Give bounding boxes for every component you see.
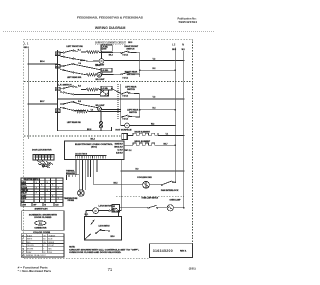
svg-text:LIGHT: LIGHT xyxy=(22,198,27,200)
connector box LR ind light xyxy=(101,68,112,74)
wire bottom s2 xyxy=(58,127,112,131)
svg-text:IND. LIGHT: IND. LIGHT xyxy=(96,105,106,107)
disclaimer box xyxy=(22,211,64,231)
EOC bottom comb connector xyxy=(75,153,107,159)
wire eoc drop 3 xyxy=(78,177,80,190)
section divider 2 xyxy=(24,81,192,83)
node L1 label xyxy=(24,42,29,49)
svg-text:M: M xyxy=(95,210,97,213)
svg-text:OFF: OFF xyxy=(33,204,36,206)
switch s3 contact 2 xyxy=(60,107,86,111)
svg-text:LATCH SWITCH: LATCH SWITCH xyxy=(99,225,111,228)
thermal breaker xyxy=(66,169,79,180)
svg-text:(3/01): (3/01) xyxy=(189,267,196,271)
connector box LF ind light xyxy=(101,45,112,51)
node N label xyxy=(182,42,185,51)
svg-text:L.F. SWITCH: L.F. SWITCH xyxy=(58,84,72,86)
door latch assembly sketch xyxy=(33,155,54,168)
wire lr3 up to row4 xyxy=(139,110,141,117)
svg-text:P-2 H-2: P-2 H-2 xyxy=(123,77,129,79)
svg-text:BROIL: BROIL xyxy=(22,185,27,187)
header dotted rule xyxy=(3,31,215,33)
connector box warmer ind xyxy=(101,86,112,90)
connector P2 on bus xyxy=(55,65,60,69)
EOC pin stub xyxy=(124,150,131,152)
wire L1 bus xyxy=(27,49,29,140)
lamp oven lamp xyxy=(167,205,184,211)
lamp LF indicator light xyxy=(99,59,104,64)
svg-text:R-6: R-6 xyxy=(78,85,81,87)
motor latch xyxy=(86,208,99,214)
switch RR label xyxy=(125,71,138,76)
svg-text:P-2: P-2 xyxy=(56,66,59,68)
svg-text:BK-7: BK-7 xyxy=(164,143,168,145)
resistor element s2 xyxy=(81,88,99,91)
svg-text:DOOR LATCH MOTOR: DOOR LATCH MOTOR xyxy=(32,149,52,152)
svg-text:BK-4: BK-4 xyxy=(109,54,113,57)
wire lamp row left xyxy=(120,207,148,209)
svg-text:CONNECTOR: CONNECTOR xyxy=(34,228,47,230)
resistor broil element xyxy=(124,143,176,146)
wire eoc drop 4 xyxy=(85,160,87,190)
svg-text:P-1: P-1 xyxy=(56,54,59,56)
wire latch drop xyxy=(85,211,87,217)
switch LR contact 2 xyxy=(60,69,86,74)
wire eoc right drop xyxy=(120,160,122,208)
lamp LR indicator light xyxy=(97,73,102,78)
switch chart table xyxy=(21,178,63,206)
wire eoc drop 1 xyxy=(75,160,77,176)
switch LRR label xyxy=(125,85,137,90)
header model numbers xyxy=(77,16,143,20)
svg-text:DLB RLY: DLB RLY xyxy=(116,153,124,155)
svg-text:# = Functional Parts: # = Functional Parts xyxy=(18,266,49,269)
svg-text:BK-5: BK-5 xyxy=(114,183,118,185)
switch LF contact 1 xyxy=(60,50,78,53)
svg-text:Y-6: Y-6 xyxy=(91,110,94,112)
lamp hot surface xyxy=(116,123,133,131)
svg-text:NOTE:: NOTE: xyxy=(69,247,75,249)
linkage dashed vertical xyxy=(117,84,119,120)
svg-text:R-1: R-1 xyxy=(78,49,81,51)
wire R-9 to N xyxy=(121,168,185,171)
svg-text:R-2: R-2 xyxy=(153,68,156,70)
lamp hot light xyxy=(97,107,101,111)
svg-text:LOW: LOW xyxy=(22,204,26,206)
section title SURFACE ELEMENTS CIRCUIT xyxy=(95,41,132,44)
svg-text:FEB30S6AB, FEB30S7AB & FEB30S6: FEB30S6AB, FEB30S7AB & FEB30S6AS xyxy=(77,16,143,20)
svg-text:LIGHT: LIGHT xyxy=(102,49,107,51)
svg-text:R-8: R-8 xyxy=(113,211,116,213)
svg-text:BK-6: BK-6 xyxy=(80,60,84,62)
connector block hatched xyxy=(100,90,108,96)
switch RF xyxy=(121,51,140,57)
wire LRR drop xyxy=(139,94,141,110)
svg-text:PROBE: PROBE xyxy=(68,200,75,202)
svg-text:N: N xyxy=(182,42,184,46)
svg-text:BROIL RLY: BROIL RLY xyxy=(114,147,123,149)
svg-text:LEFT REAR SW.: LEFT REAR SW. xyxy=(67,121,81,124)
svg-text:P-1 H-1: P-1 H-1 xyxy=(123,55,129,57)
svg-text:HOT SURFACE: HOT SURFACE xyxy=(116,128,133,131)
wire eoc drop 5 xyxy=(87,160,89,178)
resistor LR element xyxy=(86,73,97,76)
color code table xyxy=(21,232,64,257)
note text xyxy=(69,247,140,255)
resistor bake element xyxy=(128,133,185,136)
wire eoc drop 2 xyxy=(78,160,80,176)
svg-text:Y-3: Y-3 xyxy=(153,97,156,99)
svg-text:P-1: P-1 xyxy=(39,223,42,225)
svg-text:SWITCH: SWITCH xyxy=(129,112,137,114)
svg-text:L2: L2 xyxy=(172,42,176,46)
svg-text:BLUE: BLUE xyxy=(48,239,52,241)
arrow in inset xyxy=(91,220,95,225)
svg-text:316345200: 316345200 xyxy=(153,249,173,253)
switch RR xyxy=(121,72,140,79)
motor cooling fan xyxy=(137,176,152,188)
connector P4 on bus xyxy=(55,109,60,113)
svg-text:W-1: W-1 xyxy=(182,49,185,51)
switch s2 contact 2 xyxy=(60,92,100,95)
svg-text:WHITE: WHITE xyxy=(27,239,32,241)
part number box xyxy=(150,244,193,258)
svg-text:BK-8: BK-8 xyxy=(87,129,91,131)
wire N bus xyxy=(183,51,185,208)
wire hot surface to L2 xyxy=(129,123,176,126)
divider above oven lamp xyxy=(116,195,184,197)
svg-text:R-5: R-5 xyxy=(78,101,81,103)
connector bake plug xyxy=(122,134,128,140)
inset latch switch box xyxy=(84,217,121,240)
svg-text:5995421594: 5995421594 xyxy=(179,20,198,24)
wire row1 to N xyxy=(104,58,185,61)
switch RF label xyxy=(124,46,138,50)
resistor LF element xyxy=(81,51,99,54)
svg-text:OVEN DOOR CLOSED AND DOOR UNLO: OVEN DOOR CLOSED AND DOOR UNLOCKED. xyxy=(69,251,122,254)
svg-text:IND. LIGHT: IND. LIGHT xyxy=(96,79,106,81)
svg-text:BK-7: BK-7 xyxy=(40,101,44,103)
wire mid vertical xyxy=(120,84,122,126)
svg-text:R-9: R-9 xyxy=(136,168,139,170)
svg-text:Y-4: Y-4 xyxy=(78,62,81,65)
svg-text:SWITCH: SWITCH xyxy=(126,49,134,51)
svg-text:P-3 H-3: P-3 H-3 xyxy=(123,95,129,97)
wire latch switch drop xyxy=(118,211,120,217)
plug connector pair xyxy=(100,112,103,131)
svg-text:L1 RLY: L1 RLY xyxy=(117,150,123,152)
switch latch xyxy=(95,229,110,234)
svg-text:T: T xyxy=(43,249,44,251)
svg-text:BK-2: BK-2 xyxy=(91,139,95,141)
svg-text:(EOC): (EOC) xyxy=(91,147,97,149)
svg-text:OVEN LAMP SWITCH: OVEN LAMP SWITCH xyxy=(142,197,159,200)
wire row3 to N xyxy=(57,97,185,100)
svg-text:LEFT FRONT SW.: LEFT FRONT SW. xyxy=(66,46,83,48)
svg-text:ELECTRONIC OVEN CONTROL: ELECTRONIC OVEN CONTROL xyxy=(75,144,114,146)
resistor element s3 xyxy=(74,110,121,113)
page title WIRING DIAGRAM xyxy=(95,26,126,30)
svg-text:OFF: OFF xyxy=(22,201,25,203)
wire eoc drop 6 fan feed xyxy=(94,160,143,185)
wire BK-7 from L1 to switch bus xyxy=(28,101,59,105)
connector P1 on bus xyxy=(55,52,60,56)
wire row4 to L2 xyxy=(139,107,176,111)
svg-text:CIRCUIT SHOWN WITH ALL CONTROL: CIRCUIT SHOWN WITH ALL CONTROLS SET TO "… xyxy=(69,248,140,251)
wire BK-4 from L1 to switch bus xyxy=(28,60,59,65)
svg-text:BROWN: BROWN xyxy=(27,249,34,251)
svg-text:VIOLET: VIOLET xyxy=(48,245,54,247)
svg-text:SWITCH: SWITCH xyxy=(127,89,135,91)
svg-text:L.F. IND.: L.F. IND. xyxy=(102,47,109,49)
wire row2 to L2 xyxy=(139,68,176,71)
svg-text:BK-9: BK-9 xyxy=(111,236,115,238)
svg-text:FAN INTERLOCK: FAN INTERLOCK xyxy=(161,189,179,192)
svg-text:K-2: K-2 xyxy=(129,150,132,152)
wire conn to LR switch xyxy=(99,89,101,91)
switch latch row xyxy=(99,208,122,212)
connector stack box xyxy=(112,205,120,213)
wire element to RF switch xyxy=(99,51,121,53)
wire hot light row xyxy=(102,109,121,111)
svg-text:REV A: REV A xyxy=(180,250,187,253)
temperature probe jack xyxy=(64,190,84,203)
header publication no xyxy=(178,17,198,24)
node L2 label xyxy=(172,42,176,50)
svg-text:Y-1: Y-1 xyxy=(166,134,169,136)
svg-text:DOOR CLOSED: DOOR CLOSED xyxy=(34,217,52,219)
switch LF contact 2 xyxy=(60,56,99,61)
wire switch feed bus xyxy=(57,50,59,131)
svg-text:LEFT REAR SW.: LEFT REAR SW. xyxy=(67,76,82,79)
svg-text:* = Non-Illustrated Parts: * = Non-Illustrated Parts xyxy=(18,270,52,273)
svg-text:TIME BK: TIME BK xyxy=(22,190,29,192)
footer functional parts xyxy=(18,266,52,273)
connector P3 on bus xyxy=(55,87,60,91)
svg-text:71: 71 xyxy=(108,267,113,272)
wire L2 bus xyxy=(174,48,176,183)
svg-text:YELLOW: YELLOW xyxy=(27,245,34,247)
svg-text:SELECTOR SWITCH: SELECTOR SWITCH xyxy=(24,179,38,181)
switch s3 contact 1 xyxy=(60,101,98,107)
svg-text:WIRING DIAGRAM: WIRING DIAGRAM xyxy=(95,26,126,30)
svg-text:L 1: L 1 xyxy=(24,42,29,46)
wire eoc drop 5c xyxy=(96,160,98,173)
svg-text:R-4: R-4 xyxy=(153,107,156,110)
EOC box xyxy=(65,141,125,160)
switch LRR xyxy=(121,92,140,98)
switch oven lamp xyxy=(148,205,167,208)
svg-text:GREEN: GREEN xyxy=(48,242,55,244)
switch LR contact 1 xyxy=(60,63,101,69)
wire eoc drop 5b xyxy=(90,160,92,178)
svg-text:LATCH MOTOR: LATCH MOTOR xyxy=(99,204,113,207)
wire box drop to lamp xyxy=(101,51,103,58)
svg-text:COOLING FAN: COOLING FAN xyxy=(137,176,152,179)
svg-text:OVEN LAMP: OVEN LAMP xyxy=(170,198,182,201)
svg-text:P-4: P-4 xyxy=(56,110,59,113)
wire inset diagonal xyxy=(84,234,90,240)
section divider 3 xyxy=(24,135,121,137)
main dashed border xyxy=(24,40,193,259)
switch s2 contact 1 xyxy=(60,86,78,89)
switch LR3 xyxy=(121,115,140,121)
svg-text:SURFACE ELEMENTS CIRCUIT: SURFACE ELEMENTS CIRCUIT xyxy=(95,41,126,44)
switch fan interlock xyxy=(149,181,179,192)
svg-text:Y-2: Y-2 xyxy=(153,58,156,60)
wire RF output drop xyxy=(139,53,141,77)
svg-text:L.R. IND.: L.R. IND. xyxy=(102,70,109,72)
svg-text:W-2: W-2 xyxy=(151,123,154,125)
switch LR3 label xyxy=(127,109,139,114)
wire lamp B to RR switch xyxy=(102,73,121,75)
svg-text:BK-3: BK-3 xyxy=(128,42,132,44)
svg-text:P-3: P-3 xyxy=(56,89,59,91)
